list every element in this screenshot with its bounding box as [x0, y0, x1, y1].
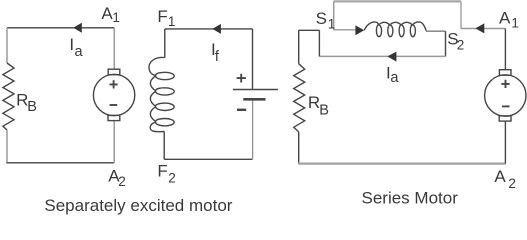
svg-text:1: 1 — [168, 14, 176, 29]
inductor field winding F — [149, 57, 174, 131]
svg-text:1: 1 — [112, 10, 120, 25]
arrow Ia series (pointing left) — [387, 52, 396, 62]
wire: field loop left vertical upper — [164, 29, 166, 58]
svg-text:2: 2 — [168, 171, 176, 186]
label F1 — [157, 7, 175, 29]
arrow If field loop (pointing left) — [212, 24, 221, 34]
arrow into series coil (pointing right) — [355, 25, 364, 35]
wire: series Ia horizontal — [319, 55, 445, 57]
wire: series circuit top horizontal — [334, 0, 461, 2]
wire: left motor top lead — [113, 28, 115, 69]
svg-text:2: 2 — [508, 176, 516, 191]
motor M2 minus sign — [502, 105, 510, 107]
motor M1 minus sign — [110, 104, 118, 106]
wire: series left vertical lower — [298, 132, 300, 164]
label A2 (left) — [108, 166, 125, 189]
wire: series S1 vertical — [333, 1, 335, 29]
svg-text:a: a — [390, 70, 399, 86]
svg-text:1: 1 — [511, 16, 519, 31]
label If — [211, 40, 220, 65]
svg-text:A: A — [499, 8, 511, 27]
svg-text:B: B — [27, 99, 37, 115]
wire: field loop bottom horizontal — [164, 158, 252, 160]
motor M2 plus sign — [501, 80, 509, 88]
wire: series motor bottom lead — [504, 121, 506, 164]
svg-text:I: I — [69, 35, 74, 54]
label F2 — [157, 162, 175, 186]
label A1 (series) — [499, 8, 519, 30]
svg-text:Series Motor: Series Motor — [362, 189, 459, 208]
svg-text:1: 1 — [328, 17, 336, 32]
arrow Ia left circuit (pointing left) — [73, 23, 82, 33]
wire: field loop left vertical lower — [163, 131, 165, 159]
wire: series left vertical upper — [298, 30, 300, 63]
svg-text:2: 2 — [457, 37, 465, 52]
battery short plate (negative) — [243, 98, 265, 101]
wire: series left jog vertical — [318, 30, 320, 56]
wire: series A1 horizontal — [461, 28, 505, 30]
svg-text:2: 2 — [118, 174, 126, 189]
wire: left motor bottom lead — [113, 121, 115, 163]
motor M1 circle — [93, 74, 134, 115]
label RB (series) — [308, 93, 329, 119]
motor M2 circle — [485, 75, 526, 116]
motor M1 bottom brush — [108, 115, 120, 120]
svg-text:A: A — [494, 167, 506, 186]
svg-text:f: f — [215, 49, 220, 65]
arrow A1 series (pointing left) — [475, 23, 484, 33]
label A2 (series) — [494, 167, 516, 191]
svg-text:B: B — [319, 103, 329, 119]
wire: series coil exit horizontal — [426, 30, 446, 32]
label RB (left) — [16, 91, 37, 116]
wire: series bottom horizontal — [298, 162, 505, 164]
resistor R_B (left circuit) — [3, 63, 14, 130]
label Ia (series) — [386, 64, 399, 86]
wire: series motor top lead — [504, 29, 506, 70]
wire: left circuit top horizontal — [7, 27, 114, 29]
svg-text:a: a — [75, 44, 84, 60]
battery minus sign — [237, 109, 246, 111]
label A1 (left) — [101, 4, 120, 25]
wire: series coil entry horizontal — [334, 29, 356, 31]
wire: field loop right vertical upper — [252, 29, 254, 89]
wire: series left jog horizontal — [299, 29, 320, 31]
wire: left circuit left vertical upper — [6, 28, 8, 63]
wire: field loop right vertical lower (battery negative lead) — [252, 100, 254, 160]
wire: series S2 vertical — [445, 31, 447, 56]
resistor R_B (series circuit) — [294, 64, 305, 132]
svg-text:F: F — [157, 162, 167, 181]
inductor series field winding S — [364, 22, 426, 37]
wire: field loop top horizontal — [165, 28, 253, 30]
battery long plate (positive) — [233, 89, 278, 91]
wire: left circuit left vertical lower — [6, 130, 8, 163]
label S2 — [447, 30, 464, 53]
battery plus sign — [237, 74, 246, 83]
label Ia (left) — [69, 35, 83, 60]
motor M1 plus sign — [110, 80, 118, 88]
svg-text:Separately excited motor: Separately excited motor — [44, 196, 232, 215]
motor M1 top brush — [108, 69, 120, 75]
motor M2 top brush — [499, 70, 511, 76]
motor M2 bottom brush — [499, 116, 511, 121]
wire: left circuit bottom horizontal — [6, 162, 114, 164]
svg-text:S: S — [316, 9, 327, 28]
wire: series top-right corner vertical — [460, 1, 462, 28]
label S1 — [316, 9, 336, 32]
svg-text:F: F — [157, 7, 167, 26]
